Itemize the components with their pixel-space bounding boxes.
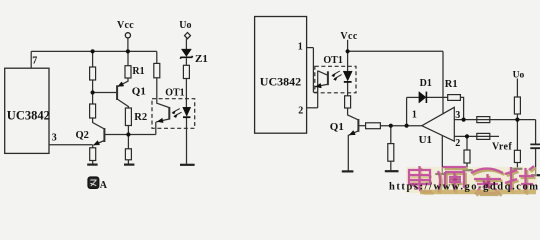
svg-text:https://www.go-gddq.com: https://www.go-gddq.com <box>389 182 538 193</box>
wire pin2 vertical <box>317 71 319 108</box>
wire pin1 vertical <box>312 48 314 93</box>
arrow Q2 emitter (NPN, outward) <box>94 141 100 145</box>
svg-text:R2: R2 <box>134 112 147 123</box>
svg-text:Vref: Vref <box>492 142 512 153</box>
wire to ground mid <box>127 160 129 164</box>
capacitor C <box>530 144 540 148</box>
ground bar colB <box>124 164 134 166</box>
wire Uo to pin3 row <box>516 114 518 120</box>
wire R1 top <box>127 51 129 65</box>
wire colB bottom <box>127 135 129 149</box>
transistor Q1-right bar <box>357 119 359 132</box>
transistor Q1 bar <box>116 85 118 100</box>
wire Uo drop <box>185 39 187 50</box>
wire R2 to node <box>127 126 129 135</box>
resistor colA-top <box>90 67 96 80</box>
wire Q1 base <box>93 92 118 94</box>
svg-text:Vcc: Vcc <box>340 31 357 42</box>
svg-text:UC3842: UC3842 <box>260 74 301 88</box>
wire colC to OT1 <box>157 78 170 108</box>
svg-text:2: 2 <box>298 106 303 117</box>
svg-text:Q1: Q1 <box>330 121 344 133</box>
wire Vcc rail <box>31 50 157 52</box>
arrow OT1-right emitter <box>316 83 322 88</box>
svg-text:7: 7 <box>32 56 37 67</box>
wire LED2 cathode <box>347 83 349 96</box>
svg-text:Q2: Q2 <box>76 130 89 141</box>
resistor colB-bottom <box>125 149 131 160</box>
svg-text:Uo: Uo <box>179 20 191 31</box>
wire pin3 row <box>454 119 535 121</box>
wire resistor-to-gnd branch <box>390 126 392 144</box>
wire pin 3 <box>49 144 93 146</box>
svg-text:OT1: OT1 <box>165 88 184 99</box>
resistor base (horizontal) <box>366 123 381 129</box>
wire R1 to pin3 row <box>460 97 463 119</box>
resistor colC <box>154 63 160 77</box>
svg-text:Vcc: Vcc <box>117 20 134 31</box>
wire Q1 collector <box>117 99 128 108</box>
watermark glyph backdrop <box>406 167 537 193</box>
resistor colD <box>183 65 189 78</box>
ground bar Uo <box>512 168 522 170</box>
svg-text:R1: R1 <box>132 66 144 77</box>
svg-text:UC3842: UC3842 <box>7 109 50 123</box>
wire colD to LED <box>185 79 187 108</box>
zener Z1 <box>181 49 191 56</box>
wire cap branch <box>535 120 537 144</box>
wire pin2 branch down <box>466 136 468 150</box>
resistor pin2-gnd <box>464 150 470 163</box>
resistor colA-lower <box>90 104 96 118</box>
light arrows OT1-left <box>173 109 182 116</box>
ground bar mid <box>385 170 399 172</box>
watermark glyph 4 pink <box>505 166 534 193</box>
wire R1 to Q1 emitter <box>118 78 129 87</box>
wire colC from rail <box>156 51 158 63</box>
wire column A upper <box>92 51 94 67</box>
LED OT1-left <box>183 107 191 116</box>
wire OT1 emitter <box>156 119 169 122</box>
svg-text:Uo: Uo <box>513 70 525 80</box>
wire to ground <box>516 163 518 168</box>
resistor Uo branch <box>514 97 520 114</box>
wire Q1-right base <box>358 125 365 127</box>
svg-text:A: A <box>100 180 108 191</box>
light arrows OT1-right <box>332 71 341 79</box>
watermark glyph 2 pink <box>438 167 466 192</box>
transistor Q2 bar <box>103 128 105 142</box>
resistor pin2 row (horizontal) <box>477 133 490 139</box>
svg-text:OT1: OT1 <box>323 55 342 66</box>
resistor mid-gnd <box>388 144 394 162</box>
terminal Uo diamond <box>185 33 191 39</box>
pin 7 stub <box>30 51 32 68</box>
svg-text:Q1: Q1 <box>132 86 146 98</box>
ground bar colD <box>180 164 195 166</box>
wire jog <box>313 91 317 93</box>
junction dots right <box>346 49 350 53</box>
svg-text:1: 1 <box>412 110 417 121</box>
terminal Vcc circle <box>125 33 130 38</box>
wire Q2 emitter <box>94 141 105 146</box>
svg-text:3: 3 <box>455 110 460 121</box>
resistor R1-right (horizontal) <box>448 95 461 101</box>
wire D1 anode <box>407 96 419 98</box>
wire Uo branch down <box>516 120 518 151</box>
wire OT1 emitter drop <box>155 122 157 135</box>
wire colA bottom <box>92 145 94 148</box>
wire zener to resistor <box>185 58 187 65</box>
wire colA to Q2 <box>93 118 105 129</box>
ground bar U1 <box>435 173 449 175</box>
wire D1 branch vertical <box>406 97 408 125</box>
svg-text:2: 2 <box>455 138 460 149</box>
arrow Q1 emitter (PNP, into bar) <box>118 82 124 87</box>
wire cap to ground <box>535 149 537 174</box>
wire D1 cathode to R1 <box>426 96 447 98</box>
diode D1 <box>419 92 426 103</box>
watermark glyph 1 pink <box>409 166 432 192</box>
resistor Uo-gnd <box>514 150 520 162</box>
svg-text:R1: R1 <box>445 79 458 90</box>
resistor below OT1-right <box>345 96 351 108</box>
ground bar colA <box>87 164 97 166</box>
wire pin2 row <box>454 135 499 137</box>
IC U-right UC3842 box <box>255 17 307 134</box>
wire Vcc terminal drop <box>127 38 129 51</box>
watermark underline bar <box>420 190 536 195</box>
arrow OT1-left emitter <box>157 118 163 122</box>
IC U-left UC3842 box <box>5 68 49 153</box>
svg-text:3: 3 <box>52 133 57 144</box>
wire Q1-right emitter <box>348 131 358 171</box>
resistor colA-bottom <box>90 148 96 161</box>
optocoupler OT1-right dashed box <box>315 66 356 93</box>
wire to ground <box>390 161 392 170</box>
resistor R2 <box>125 108 131 126</box>
label 图A <box>88 177 108 191</box>
phototransistor OT1-right bar <box>327 71 329 85</box>
svg-text:Z1: Z1 <box>195 53 208 65</box>
ground bar Q1-right <box>342 170 354 172</box>
wire pin 2 <box>307 107 318 109</box>
ground bar cap <box>531 174 540 176</box>
phototransistor OT1-left bar <box>168 107 170 120</box>
arrow Q1-right emitter <box>349 131 355 135</box>
LED OT1-right <box>343 71 352 81</box>
wire U1 ground <box>441 135 443 173</box>
wire pin 1 <box>307 47 314 49</box>
op-amp U1 triangle <box>422 107 455 141</box>
optocoupler OT1 dashed box <box>152 99 195 129</box>
watermark magenta accents <box>412 180 490 190</box>
wire to ground left <box>92 161 94 164</box>
phototransistor OT1-right collector <box>318 71 328 76</box>
svg-text:D1: D1 <box>420 78 432 89</box>
junction dots left <box>91 49 95 53</box>
wire base row <box>104 134 155 136</box>
wire Uo right drop <box>516 79 518 98</box>
ground bar pin2 <box>463 169 473 171</box>
wire colA mid <box>92 80 94 104</box>
svg-text:U1: U1 <box>419 134 432 146</box>
resistor pin3 row (horizontal) <box>477 117 490 123</box>
wire base row to U1 <box>380 125 421 127</box>
wire LED to ground <box>186 118 188 164</box>
resistor R1 <box>125 66 131 78</box>
watermark glyphs tan shadow layer <box>411 168 536 196</box>
wire U1 power <box>442 51 444 114</box>
wire OT1-right emitter <box>315 84 328 87</box>
wire to ground <box>466 163 468 169</box>
svg-text:1: 1 <box>298 42 303 53</box>
wire Vcc rail right <box>348 50 443 52</box>
wire to Q1 collector <box>348 108 359 120</box>
watermark glyph 3 pink <box>471 169 503 195</box>
wire Vcc right drop <box>347 40 349 71</box>
